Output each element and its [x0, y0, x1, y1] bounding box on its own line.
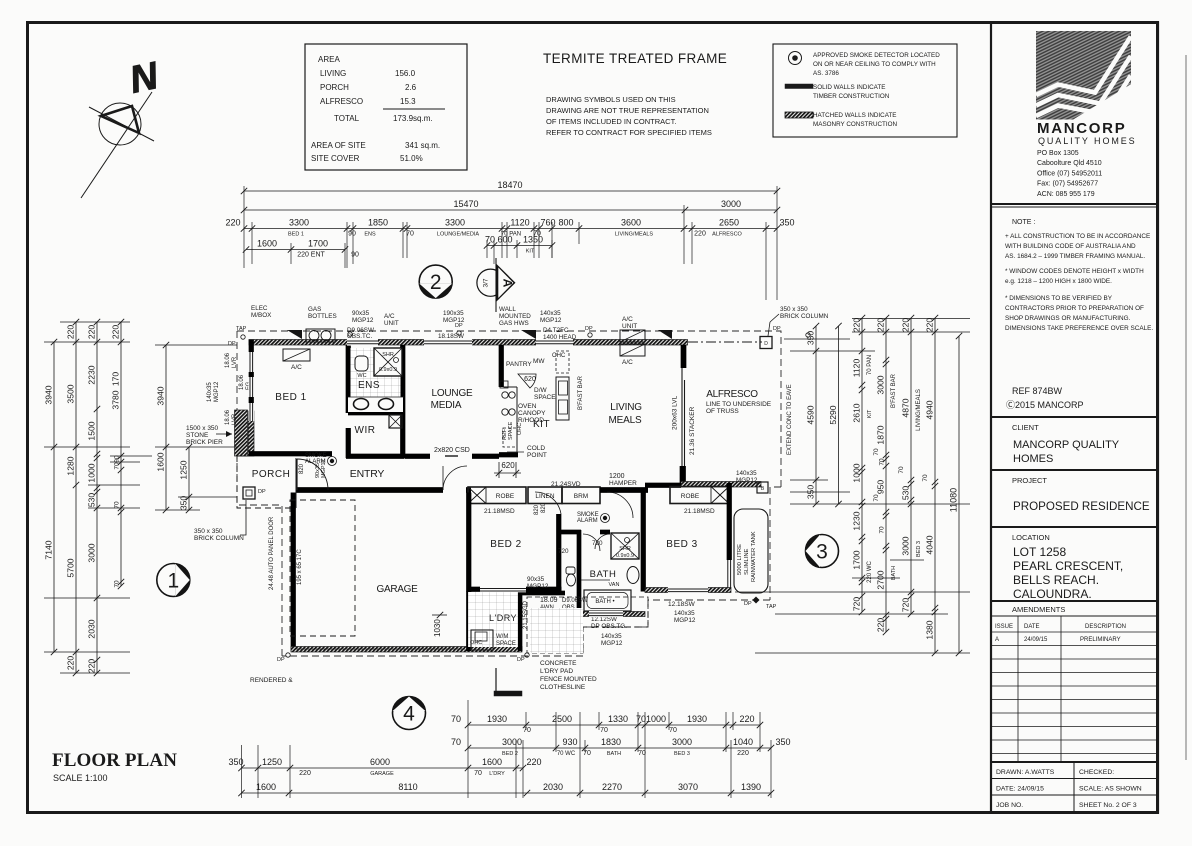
svg-text:DP: DP — [455, 323, 463, 329]
svg-text:3: 3 — [816, 541, 828, 564]
svg-text:90x35: 90x35 — [527, 576, 545, 583]
window bed2 bottom — [480, 587, 526, 593]
svg-text:MEDIA: MEDIA — [431, 400, 462, 411]
svg-text:MGP12: MGP12 — [352, 317, 374, 324]
brick column leader top right — [770, 314, 779, 322]
svg-text:SPACE: SPACE — [534, 394, 556, 401]
wir x-box — [389, 415, 402, 428]
svg-text:3000: 3000 — [672, 737, 692, 747]
svg-text:L'DRY PAD: L'DRY PAD — [540, 668, 573, 675]
title block outer — [991, 23, 1158, 813]
svg-text:* WINDOW CODES DENOTE HEIG: * WINDOW CODES DENOTE HEIGHT x WIDTH — [1005, 268, 1144, 275]
svg-text:MGP12: MGP12 — [736, 477, 758, 484]
svg-text:220: 220 — [526, 757, 541, 767]
svg-text:5290: 5290 — [828, 405, 838, 424]
laundry tiles — [468, 592, 518, 647]
garage door dashes bottom — [296, 648, 465, 650]
svg-text:1000: 1000 — [646, 714, 666, 724]
svg-text:90x35: 90x35 — [352, 310, 370, 317]
svg-text:3780: 3780 — [111, 390, 121, 409]
svg-text:220 WC: 220 WC — [867, 561, 873, 583]
svg-text:APPROVED SMOKE DETECTOR LOC: APPROVED SMOKE DETECTOR LOCATED — [813, 52, 940, 59]
svg-text:6000: 6000 — [370, 757, 390, 767]
svg-text:350: 350 — [806, 331, 816, 346]
svg-text:720: 720 — [592, 540, 603, 547]
svg-text:156.0: 156.0 — [395, 69, 416, 78]
svg-text:MEALS: MEALS — [609, 415, 642, 426]
svg-text:1930: 1930 — [487, 714, 507, 724]
svg-text:1850: 1850 — [368, 218, 388, 228]
dim chain left col A/B — [53, 342, 55, 652]
svg-text:2: 2 — [430, 271, 442, 294]
svg-text:1600: 1600 — [482, 757, 502, 767]
wall bed1/porch bottom — [249, 451, 332, 456]
svg-text:24.48 AUTO PANEL DOOR: 24.48 AUTO PANEL DOOR — [269, 516, 275, 590]
svg-text:70: 70 — [114, 501, 121, 509]
svg-text:PANTRY: PANTRY — [506, 361, 532, 368]
project box — [991, 469, 1158, 471]
bathtub — [584, 590, 631, 611]
section marker 2 — [419, 265, 452, 298]
svg-text:B'FAST BAR: B'FAST BAR — [891, 373, 897, 408]
svg-text:PROJECT: PROJECT — [1012, 476, 1047, 485]
svg-text:1250: 1250 — [179, 460, 189, 479]
svg-text:600: 600 — [497, 235, 512, 245]
svg-text:SCALE 1:100: SCALE 1:100 — [53, 773, 108, 783]
svg-text:70: 70 — [114, 462, 121, 470]
bath door arcs — [583, 534, 600, 551]
svg-text:A/C: A/C — [622, 359, 633, 366]
dim chain bottom row4 — [242, 792, 772, 794]
dim chain bottom row1 — [468, 724, 760, 726]
svg-text:OBS.TC.: OBS.TC. — [347, 333, 372, 340]
svg-text:DRAWING SYMBOLS USED ON TH: DRAWING SYMBOLS USED ON THIS — [546, 95, 676, 104]
svg-text:MOUNTED: MOUNTED — [499, 313, 531, 320]
bed3 door arc — [607, 492, 633, 518]
svg-text:8110: 8110 — [398, 782, 417, 792]
svg-text:HOMES: HOMES — [1013, 453, 1053, 465]
left extension lines — [44, 341, 130, 343]
svg-text:18.18SW: 18.18SW — [438, 333, 464, 340]
linen cupboard — [528, 487, 562, 504]
eave dashed outline — [237, 331, 781, 656]
svg-text:3000: 3000 — [876, 375, 886, 394]
section marker 3 — [806, 535, 839, 568]
svg-text:18.06: 18.06 — [225, 352, 231, 368]
wall bed2 bottom — [467, 587, 562, 592]
svg-text:3000: 3000 — [502, 737, 522, 747]
svg-text:AREA OF SITE: AREA OF SITE — [311, 141, 366, 150]
svg-text:B'FAST BAR: B'FAST BAR — [578, 375, 584, 410]
dim chain top row4 — [246, 249, 345, 251]
svg-text:190x35: 190x35 — [443, 310, 464, 317]
svg-text:AREA: AREA — [318, 55, 340, 64]
svg-text:760: 760 — [540, 218, 555, 228]
pantry door fan — [518, 374, 536, 388]
wall kitchen/pantry left — [499, 345, 504, 387]
entry door arc — [297, 459, 328, 490]
svg-text:220: 220 — [739, 714, 754, 724]
svg-text:BRICK COLUMN: BRICK COLUMN — [780, 313, 829, 320]
right extension lines — [852, 318, 970, 320]
svg-text:REF 874BW: REF 874BW — [1012, 386, 1063, 396]
a/c living double — [620, 330, 645, 342]
svg-text:4590: 4590 — [806, 405, 816, 424]
svg-text:170: 170 — [111, 372, 121, 387]
svg-text:341 sq.m.: 341 sq.m. — [405, 141, 440, 150]
svg-text:70: 70 — [873, 494, 880, 502]
svg-text:LOUNGE/MEDIA: LOUNGE/MEDIA — [437, 232, 480, 238]
mancorp logo — [1036, 31, 1131, 120]
svg-text:51.0%: 51.0% — [400, 154, 423, 163]
svg-text:BELLS REACH.: BELLS REACH. — [1013, 573, 1099, 587]
svg-text:173.9sq.m.: 173.9sq.m. — [393, 114, 433, 123]
svg-text:SITE COVER: SITE COVER — [311, 154, 360, 163]
clothesline symbol — [495, 668, 497, 691]
svg-text:SHOP DRAWINGS OR MANUFACTUR: SHOP DRAWINGS OR MANUFACTURING. — [1005, 315, 1131, 322]
garage dashed bay — [290, 500, 355, 636]
wall bath left — [577, 530, 582, 616]
wall bed3 top — [645, 483, 681, 488]
svg-text:70: 70 — [451, 714, 461, 724]
robe bed3 box — [670, 487, 729, 504]
svg-text:ACN: 085 955 179: ACN: 085 955 179 — [1037, 191, 1095, 198]
svg-text:BED 3: BED 3 — [666, 539, 697, 550]
svg-text:MGP12: MGP12 — [321, 459, 327, 478]
entry door opening arc 820 — [443, 466, 467, 490]
svg-text:DP: DP — [228, 341, 236, 347]
svg-text:720: 720 — [852, 597, 862, 612]
svg-text:BED 1: BED 1 — [275, 392, 306, 403]
svg-text:AS. 1684.2 – 1999 TIMBER: AS. 1684.2 – 1999 TIMBER FRAMING MANUAL. — [1005, 253, 1145, 260]
client box — [991, 416, 1158, 418]
svg-text:140x35: 140x35 — [601, 633, 622, 640]
svg-text:220: 220 — [694, 231, 706, 238]
svg-text:TIMBER CONSTRUCTION: TIMBER CONSTRUCTION — [813, 93, 890, 100]
svg-text:ON OR NEAR CEILING TO COM: ON OR NEAR CEILING TO COMPLY WITH — [813, 61, 936, 68]
wall laundry/bed2 step — [518, 591, 565, 596]
windows left wall — [248, 352, 254, 372]
svg-text:220: 220 — [925, 318, 935, 333]
window bath bottom — [589, 611, 623, 617]
svg-text:530: 530 — [87, 493, 97, 508]
wall laundry right — [518, 591, 523, 651]
gas bottles — [306, 329, 335, 342]
svg-text:LIVING/MEALS: LIVING/MEALS — [615, 232, 654, 238]
svg-text:11080: 11080 — [949, 488, 959, 512]
svg-text:MANCORP: MANCORP — [1037, 120, 1126, 137]
dim chain left col C — [96, 322, 98, 673]
svg-text:800: 800 — [558, 218, 573, 228]
svg-text:AS. 3786: AS. 3786 — [813, 70, 839, 77]
svg-text:KIT: KIT — [867, 409, 873, 418]
svg-text:220: 220 — [901, 318, 911, 333]
svg-text:LOCATION: LOCATION — [1012, 533, 1050, 542]
wall bed3 right — [727, 483, 732, 560]
svg-text:D/W: D/W — [534, 387, 548, 394]
svg-text:A: A — [501, 279, 515, 288]
wall bed3 bottom — [645, 588, 731, 593]
svg-text:ROBE: ROBE — [681, 493, 700, 500]
svg-text:70: 70 — [873, 448, 880, 456]
svg-text:LIVING: LIVING — [320, 69, 346, 78]
svg-text:3940: 3940 — [156, 386, 166, 405]
svg-text:1500: 1500 — [87, 421, 97, 440]
svg-text:70 WC: 70 WC — [557, 751, 576, 757]
svg-text:21.36 STACKER: 21.36 STACKER — [689, 406, 696, 455]
svg-text:70: 70 — [114, 580, 121, 588]
svg-text:BATH •: BATH • — [595, 599, 614, 605]
dim chain right col5 — [910, 318, 912, 614]
svg-text:4: 4 — [403, 703, 415, 726]
wall living/hall top — [296, 487, 443, 493]
svg-text:ROBE: ROBE — [496, 493, 515, 500]
dim chain top row4b kit — [487, 245, 552, 247]
svg-text:DRAWING ARE NOT TRUE REPRE: DRAWING ARE NOT TRUE REPRESENTATION — [546, 106, 709, 115]
svg-text:ENS: ENS — [364, 232, 376, 238]
svg-text:OHC: OHC — [470, 640, 482, 646]
svg-text:1040: 1040 — [733, 737, 753, 747]
svg-text:220: 220 — [876, 318, 886, 333]
svg-text:PO Box 1305: PO Box 1305 — [1037, 150, 1079, 157]
shower ens — [374, 348, 402, 376]
svg-text:SLIMLINE: SLIMLINE — [744, 548, 750, 575]
svg-text:18.06: 18.06 — [225, 409, 231, 425]
svg-text:820: 820 — [541, 502, 547, 513]
svg-text:3000: 3000 — [901, 536, 911, 555]
top dp circles — [241, 335, 245, 339]
svg-text:1030: 1030 — [433, 619, 442, 637]
svg-text:21.15SGD: 21.15SGD — [523, 600, 529, 629]
svg-text:PRELIMINARY: PRELIMINARY — [1080, 637, 1121, 643]
svg-text:FENCE MOUNTED: FENCE MOUNTED — [540, 676, 597, 683]
svg-text:18.09: 18.09 — [540, 597, 558, 604]
svg-text:BED 2: BED 2 — [490, 539, 521, 550]
svg-text:1230: 1230 — [852, 511, 862, 530]
svg-text:CONCRETE: CONCRETE — [540, 660, 577, 667]
svg-text:5700: 5700 — [66, 558, 76, 577]
svg-text:1120: 1120 — [510, 218, 529, 228]
wall top exterior — [249, 340, 688, 346]
svg-text:220: 220 — [852, 318, 862, 333]
svg-text:220: 220 — [66, 656, 76, 671]
svg-text:GARAGE: GARAGE — [370, 771, 394, 777]
svg-text:OVEN: OVEN — [518, 403, 537, 410]
svg-text:BED 1: BED 1 — [288, 232, 304, 238]
filled flag triangles on top wall — [287, 330, 302, 339]
laundry fixtures — [471, 630, 493, 650]
svg-text:220: 220 — [87, 325, 97, 340]
svg-text:12.18SW: 12.18SW — [668, 601, 696, 608]
svg-text:ENTRY: ENTRY — [350, 468, 385, 480]
svg-text:3000: 3000 — [721, 199, 741, 209]
svg-text:1930: 1930 — [687, 714, 707, 724]
svg-text:3000: 3000 — [87, 543, 97, 562]
a/c bed1 — [283, 349, 310, 361]
ens floor tiles — [351, 348, 401, 397]
svg-text:2230: 2230 — [87, 365, 97, 384]
svg-text:5000 LITRE: 5000 LITRE — [737, 544, 743, 575]
wall lounge left — [400, 345, 405, 459]
svg-text:70: 70 — [898, 466, 905, 474]
svg-text:4040: 4040 — [925, 535, 935, 554]
svg-text:MGP12: MGP12 — [540, 317, 562, 324]
robe bed2 box — [468, 487, 526, 504]
svg-text:SPACE: SPACE — [496, 641, 516, 647]
dim chain top row2 15470/3000 — [244, 209, 777, 211]
svg-text:MGP12: MGP12 — [527, 583, 549, 590]
svg-text:L'DRY: L'DRY — [489, 613, 517, 623]
svg-text:1600: 1600 — [257, 239, 277, 249]
dim chain left group2 — [165, 345, 167, 510]
svg-text:W/M: W/M — [496, 634, 508, 640]
svg-text:+ ALL CONSTRUCTION TO BE: + ALL CONSTRUCTION TO BE IN ACCORDANCE — [1005, 233, 1150, 240]
svg-text:DP: DP — [585, 326, 593, 332]
svg-text:70: 70 — [600, 727, 608, 734]
svg-text:220: 220 — [111, 325, 121, 340]
svg-text:WALL: WALL — [499, 306, 516, 313]
svg-text:AMENDMENTS: AMENDMENTS — [1012, 605, 1065, 614]
lintel 200x63 LVL dash-dot — [688, 341, 762, 343]
north arrow — [81, 55, 163, 198]
svg-text:DP: DP — [258, 489, 266, 495]
svg-text:24/09/15: 24/09/15 — [1024, 637, 1048, 643]
svg-text:90: 90 — [348, 231, 356, 238]
smoke alarm entry — [328, 457, 337, 466]
svg-text:3500: 3500 — [66, 384, 76, 403]
legend box — [773, 44, 957, 137]
wall lounge bottom + 2x820 CSD opening — [405, 454, 430, 459]
svg-text:220 ENT: 220 ENT — [297, 252, 325, 259]
wall bath bottom exterior — [581, 612, 645, 617]
wall bed2 right — [556, 514, 561, 592]
svg-text:LOUNGE: LOUNGE — [431, 388, 473, 399]
svg-text:HAMPER: HAMPER — [609, 480, 637, 487]
amendments box — [991, 600, 1158, 602]
smoke alarm hall — [601, 514, 610, 523]
svg-text:MASONRY CONSTRUCTION: MASONRY CONSTRUCTION — [813, 121, 898, 128]
svg-text:VAN: VAN — [609, 582, 620, 588]
svg-text:70: 70 — [879, 458, 886, 466]
svg-text:0.9x0.9: 0.9x0.9 — [616, 553, 634, 559]
kitchen bench left — [516, 387, 518, 452]
svg-text:CONTRACTORS PRIOR TO PREPAR: CONTRACTORS PRIOR TO PREPARATION OF — [1005, 305, 1144, 312]
svg-text:930: 930 — [562, 737, 577, 747]
area schedule table — [305, 44, 467, 170]
svg-text:820: 820 — [534, 504, 540, 515]
svg-text:1870: 1870 — [876, 425, 886, 444]
svg-text:ALFRESCO: ALFRESCO — [706, 389, 758, 400]
svg-text:70: 70 — [451, 737, 461, 747]
svg-text:SCALE: AS SHOWN: SCALE: AS SHOWN — [1079, 786, 1142, 793]
svg-text:3070: 3070 — [678, 782, 698, 792]
svg-text:OF TRUSS: OF TRUSS — [706, 408, 739, 415]
svg-text:950: 950 — [876, 480, 886, 495]
wall bed3 left — [641, 488, 646, 592]
svg-text:2030: 2030 — [87, 619, 97, 638]
dim chain right col6 — [934, 318, 936, 653]
svg-text:1600: 1600 — [256, 782, 276, 792]
wall garage left — [291, 493, 296, 652]
stone pier — [235, 410, 248, 456]
svg-text:ALFRESCO: ALFRESCO — [712, 232, 742, 238]
svg-text:LVR: LVR — [232, 356, 238, 368]
svg-text:1380: 1380 — [925, 620, 935, 639]
svg-text:2500: 2500 — [552, 714, 572, 724]
svg-text:CHECKED:: CHECKED: — [1079, 769, 1114, 776]
svg-text:2030: 2030 — [543, 782, 563, 792]
svg-text:MGP12: MGP12 — [214, 381, 220, 402]
svg-text:1600: 1600 — [156, 452, 166, 471]
svg-text:CANOPY: CANOPY — [518, 410, 546, 417]
svg-text:2650: 2650 — [719, 218, 739, 228]
porch outline dashed — [237, 456, 296, 508]
legend solid wall sample — [785, 84, 813, 89]
svg-text:DP: DP — [517, 657, 525, 663]
svg-text:18470: 18470 — [497, 180, 522, 190]
svg-text:BED 3: BED 3 — [674, 751, 690, 757]
dim chain bottom row3 — [242, 767, 524, 769]
svg-text:PORCH: PORCH — [252, 469, 291, 480]
svg-text:A: A — [995, 637, 999, 643]
svg-text:4940: 4940 — [925, 400, 935, 419]
svg-text:1000: 1000 — [852, 463, 862, 482]
svg-text:3/7: 3/7 — [483, 278, 490, 287]
svg-text:DRAWN: A.WATTS: DRAWN: A.WATTS — [996, 769, 1055, 776]
svg-text:BED 3: BED 3 — [916, 541, 922, 557]
svg-text:DATE: DATE — [1024, 624, 1040, 630]
dim chain left col D — [120, 322, 122, 586]
svg-text:2610: 2610 — [852, 403, 862, 422]
svg-text:2.6: 2.6 — [405, 83, 417, 92]
svg-text:SHR: SHR — [382, 352, 394, 358]
svg-text:MW: MW — [533, 358, 545, 365]
svg-text:SHEET No. 2 OF 3: SHEET No. 2 OF 3 — [1079, 802, 1137, 809]
svg-text:GARAGE: GARAGE — [377, 584, 419, 595]
svg-text:21.18MSD: 21.18MSD — [484, 508, 515, 515]
svg-text:0.9x0.9: 0.9x0.9 — [379, 367, 397, 373]
svg-text:A/C: A/C — [291, 364, 302, 371]
wall bed1 left exterior — [249, 340, 254, 412]
svg-text:RAINWATER TANK: RAINWATER TANK — [751, 531, 757, 582]
drawn/checked rows — [991, 761, 1158, 763]
svg-text:1120: 1120 — [852, 359, 862, 378]
svg-text:WC: WC — [357, 373, 366, 379]
svg-text:Ⓒ2015 MANCORP: Ⓒ2015 MANCORP — [1006, 400, 1084, 410]
wall alfresco bottom — [681, 482, 761, 488]
svg-text:ALFRESCO: ALFRESCO — [320, 97, 363, 106]
shower bath — [611, 533, 639, 559]
svg-text:WITH BUILDING CODE OF AUST: WITH BUILDING CODE OF AUSTRALIA AND — [1005, 243, 1136, 250]
svg-text:195 x 65 17C: 195 x 65 17C — [297, 549, 303, 585]
wall bed1 right — [346, 345, 351, 413]
svg-text:PROPOSED RESIDENCE: PROPOSED RESIDENCE — [1013, 500, 1150, 513]
brick column top right — [760, 337, 772, 349]
svg-text:CLOTHESLINE: CLOTHESLINE — [540, 684, 586, 691]
vanity bath — [581, 579, 610, 581]
concrete pad outline — [527, 597, 648, 653]
wall wir bottom — [346, 454, 404, 459]
svg-text:PORCH: PORCH — [320, 83, 349, 92]
legend smoke detector symbol — [789, 52, 802, 65]
ens vanity basins — [348, 397, 403, 412]
svg-text:LOT 1258: LOT 1258 — [1013, 545, 1066, 559]
svg-text:OHC: OHC — [517, 423, 523, 435]
svg-text:350: 350 — [179, 496, 189, 511]
svg-text:220: 220 — [87, 659, 97, 674]
svg-text:15470: 15470 — [453, 199, 478, 209]
svg-text:D4.T2FC: D4.T2FC — [543, 327, 569, 334]
